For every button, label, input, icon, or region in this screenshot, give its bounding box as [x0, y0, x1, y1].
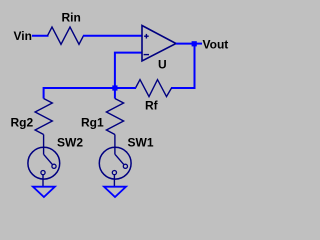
wire junction down to Rg1 — [114, 88, 116, 99]
node output junction square — [192, 41, 197, 46]
wire op-amp output — [176, 43, 194, 45]
wire Rin to op-amp non-inverting input — [83, 35, 142, 37]
wire Vin to Rin — [32, 35, 49, 37]
switch SW2 — [28, 135, 83, 187]
svg-text:U: U — [158, 57, 167, 71]
svg-text:Vout: Vout — [203, 38, 229, 52]
svg-text:Rin: Rin — [62, 11, 81, 25]
svg-text:Rg1: Rg1 — [81, 116, 104, 130]
op-amp U — [142, 26, 176, 72]
svg-text:SW1: SW1 — [128, 135, 154, 149]
svg-text:Rg2: Rg2 — [11, 116, 34, 130]
ground under SW1 — [104, 187, 126, 197]
ground under SW2 — [33, 187, 55, 197]
switch SW1 — [99, 135, 154, 187]
wire Rf to junction — [115, 87, 136, 89]
resistor Rg1 — [81, 99, 124, 135]
wire to Vout label — [197, 43, 203, 45]
resistor Rin — [48, 11, 84, 45]
resistor Rg2 — [11, 99, 53, 135]
svg-text:Rf: Rf — [145, 99, 159, 113]
resistor Rf — [136, 80, 172, 113]
net label Vout — [203, 38, 229, 52]
node Vin label — [14, 29, 32, 43]
wire inverting input — [115, 53, 142, 88]
svg-text:SW2: SW2 — [57, 135, 83, 149]
svg-text:Vin: Vin — [14, 29, 32, 43]
wire junction to Rg2 corner — [44, 88, 115, 99]
wire output down to feedback row — [171, 46, 195, 88]
junction node square — [112, 85, 117, 90]
